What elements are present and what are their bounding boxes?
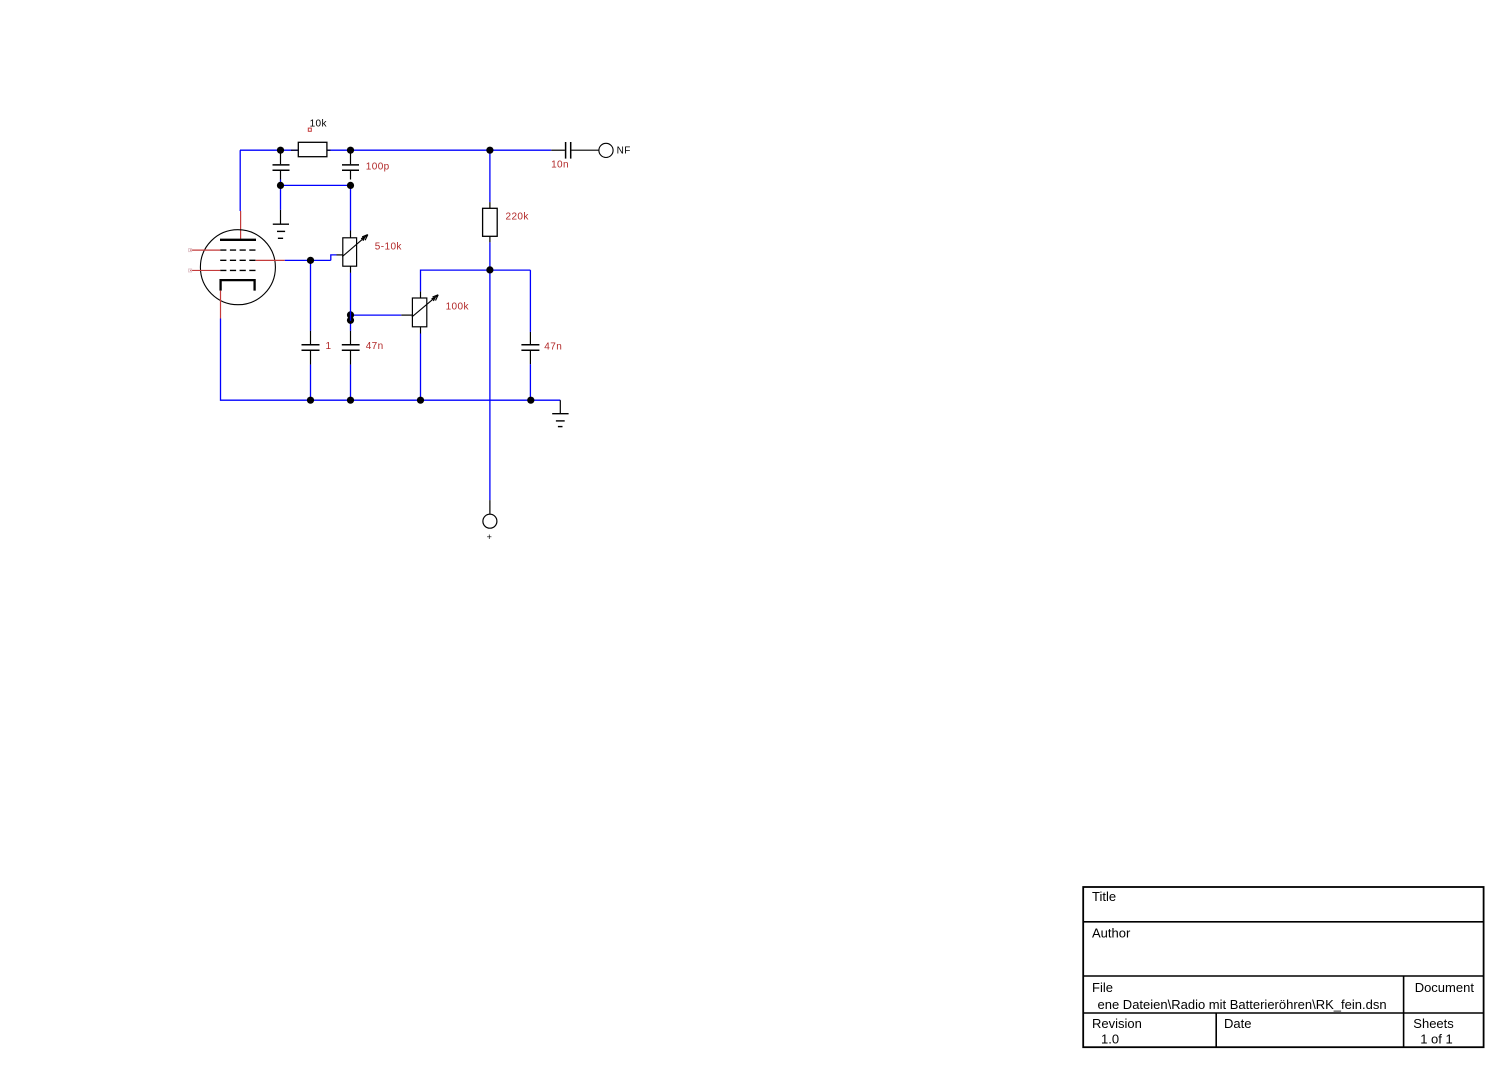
title block text Sheets (1413, 1016, 1454, 1031)
label 47n left (366, 341, 384, 352)
wire C3 to bottom rail (310, 365, 312, 401)
title block text Author (1092, 926, 1131, 941)
wire left node down to ground (280, 185, 282, 210)
ground GND1 (273, 210, 289, 238)
capacitor C-left (grid cap) (273, 150, 290, 179)
wire C4 to bottom rail (350, 365, 352, 401)
svg-text:10n: 10n (551, 159, 569, 170)
node wiper junction lower (347, 317, 354, 324)
wire top horizontal net (240, 149, 551, 151)
wire cathode down and bottom rail (221, 319, 561, 401)
svg-text:Revision: Revision (1092, 1016, 1142, 1031)
node rail junction 2 (347, 397, 354, 404)
node top-mid junction (347, 147, 354, 154)
wire pot P1 down to node (350, 273, 352, 331)
svg-text:100p: 100p (366, 162, 390, 173)
title block text File (1092, 980, 1113, 995)
svg-text:Date: Date (1224, 1016, 1251, 1031)
capacitor C3 value 1 (302, 331, 320, 365)
svg-text:1: 1 (326, 341, 332, 352)
title block text Revision (1092, 1016, 1142, 1031)
wire step up to pot wiper (331, 255, 343, 260)
title block (1083, 887, 1483, 1047)
node wiper junction upper (347, 311, 354, 318)
resistor R2 220k (483, 202, 498, 242)
label 10k (310, 118, 328, 129)
capacitor C5 47n right (521, 332, 539, 364)
svg-text:ene Dateien\Radio mit Batterie: ene Dateien\Radio mit Batterieröhren\RK_… (1098, 997, 1387, 1012)
ground GND2 (552, 400, 568, 426)
tube grid pin stub lower (red, unconnected) (189, 269, 221, 272)
vacuum tube V1 (200, 230, 275, 305)
tube control grid pin (red) (256, 259, 285, 261)
wire pot P2 top up and right (421, 270, 531, 291)
wire overlay through double junction (350, 311, 352, 321)
svg-text:Document: Document (1415, 980, 1475, 995)
wire cap-left to node (280, 180, 282, 186)
svg-text:220k: 220k (506, 211, 530, 222)
title block text 1 of 1 (1420, 1032, 1453, 1047)
terminal NF (599, 143, 613, 157)
label NF (617, 145, 631, 156)
tube cathode pin (red) (220, 291, 222, 319)
capacitor C2 100p (342, 150, 359, 179)
node left cap lower junction (277, 182, 284, 189)
label 5-10k (375, 242, 403, 253)
node 100p lower junction (347, 182, 354, 189)
node top-left junction (277, 147, 284, 154)
svg-text:File: File (1092, 980, 1113, 995)
title block text Title (1092, 889, 1116, 904)
battery terminal + (483, 500, 497, 528)
title block text Document (1415, 980, 1475, 995)
title block file path (1098, 997, 1387, 1012)
node rail junction 4 (527, 397, 534, 404)
svg-text:100k: 100k (446, 302, 470, 313)
node rail junction 3 (417, 397, 424, 404)
svg-text:+: + (487, 532, 493, 542)
potentiometer P1 5-10k (342, 231, 368, 273)
label 100k (446, 302, 470, 313)
tube grid pin stub upper (red, unconnected) (189, 249, 221, 252)
potentiometer P2 100k (412, 291, 438, 333)
svg-text:Sheets: Sheets (1413, 1016, 1454, 1031)
wire pot P2 bottom to rail (420, 334, 422, 401)
svg-text:1 of 1: 1 of 1 (1420, 1032, 1453, 1047)
wire between lower cap nodes (281, 184, 351, 186)
wire 220k bottom to node (489, 242, 491, 270)
tube anode pin (red) (240, 211, 242, 239)
label 47n right (544, 341, 562, 352)
svg-text:Title: Title (1092, 889, 1116, 904)
svg-text:10k: 10k (310, 118, 328, 129)
label 1 (326, 341, 332, 352)
wire 100p node down to pot (350, 185, 352, 230)
wire left vertical to tube anode (239, 150, 241, 211)
svg-text:47n: 47n (544, 341, 562, 352)
title block text Date (1224, 1016, 1251, 1031)
wire 220k top (489, 150, 491, 202)
capacitor C4 47n (342, 331, 360, 365)
wire right branch down to C5 (529, 270, 531, 332)
resistor R1 10k (291, 142, 331, 156)
node 220k junction (486, 266, 493, 273)
svg-text:47n: 47n (366, 341, 384, 352)
title block text 1.0 (1101, 1032, 1119, 1047)
wire wiper node to pot P2 (351, 314, 413, 316)
capacitor C6 10n coupling (551, 142, 599, 159)
wire grid node down to C3 (310, 260, 312, 331)
svg-text:Author: Author (1092, 926, 1131, 941)
node grid junction (307, 257, 314, 264)
red marker square at 10k (308, 128, 311, 131)
node rail junction 1 (307, 397, 314, 404)
label 220k (506, 211, 530, 222)
svg-text:NF: NF (617, 145, 631, 156)
wire grid node horizontal (285, 259, 331, 261)
wire C5 to bottom rail (529, 364, 531, 400)
node top-right junction (486, 147, 493, 154)
wire node down to battery terminal (489, 270, 491, 500)
svg-text:1.0: 1.0 (1101, 1032, 1119, 1047)
label plus (487, 532, 493, 542)
label 100p (366, 162, 390, 173)
svg-text:5-10k: 5-10k (375, 242, 403, 253)
label 10n (551, 159, 569, 170)
